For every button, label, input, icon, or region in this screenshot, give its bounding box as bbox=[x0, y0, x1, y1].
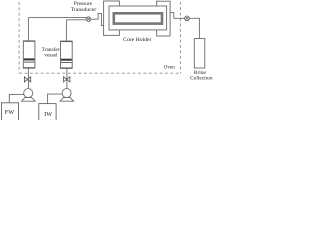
drain pipe vessel 1 bbox=[27, 68, 29, 89]
core sleeve bbox=[114, 13, 162, 23]
FW feed pipe bbox=[9, 94, 24, 102]
oven dashed bottom wall bbox=[19, 72, 180, 74]
IW tank bbox=[39, 104, 56, 122]
outlet line bbox=[170, 13, 199, 39]
svg-text:Oven: Oven bbox=[164, 65, 175, 71]
transfer vessel 1 bbox=[23, 41, 35, 68]
oven dashed left wall bbox=[18, 2, 20, 73]
outlet valve bbox=[185, 16, 190, 21]
supply line from vessel 1 bbox=[28, 17, 87, 19]
svg-text:IW: IW bbox=[44, 111, 52, 118]
pump P2 bbox=[60, 89, 74, 102]
brine collection vessel bbox=[194, 39, 205, 68]
valve V2 bbox=[64, 77, 70, 82]
svg-text:Collection: Collection bbox=[190, 75, 213, 81]
riser to transfer vessel 1 bbox=[27, 18, 29, 41]
oven dashed right wall bbox=[179, 2, 181, 74]
transfer vessel 2 bbox=[61, 41, 73, 68]
piston of vessel 2 bbox=[61, 59, 72, 63]
supply line from vessel 2 bbox=[66, 19, 87, 21]
svg-text:FW: FW bbox=[5, 109, 15, 116]
core holder left end cap bbox=[104, 1, 120, 35]
pressure transducer symbol bbox=[86, 17, 91, 22]
riser to transfer vessel 2 bbox=[65, 20, 67, 41]
svg-text:Transducer: Transducer bbox=[71, 7, 96, 13]
pump P1 bbox=[22, 89, 36, 102]
line to core holder inlet bbox=[91, 13, 105, 25]
core holder body bbox=[109, 6, 167, 30]
svg-text:vessel: vessel bbox=[44, 53, 58, 59]
drain pipe vessel 2 bbox=[66, 68, 68, 88]
piston of vessel 1 bbox=[24, 58, 35, 62]
core holder right end cap bbox=[157, 1, 171, 36]
IW feed pipe bbox=[48, 94, 63, 104]
svg-text:Core Holder: Core Holder bbox=[123, 37, 151, 43]
valve V1 bbox=[24, 77, 30, 82]
FW tank bbox=[2, 103, 19, 122]
